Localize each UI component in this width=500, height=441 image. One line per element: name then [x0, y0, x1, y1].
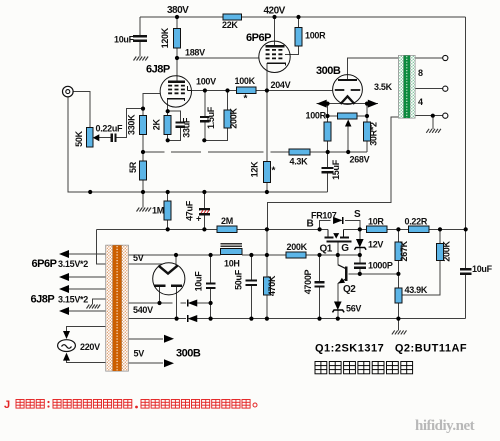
junction 188V — [175, 56, 179, 60]
junction grid node — [141, 107, 145, 111]
resistor 22K — [223, 14, 242, 20]
svg-text:200K: 200K — [442, 241, 452, 262]
wire 6J8P plate lead — [176, 58, 178, 82]
junction zener gate — [358, 253, 362, 257]
junction bus2 FR107 — [318, 227, 322, 231]
ground below 5R — [137, 208, 140, 212]
wire Q1 gate lead — [337, 242, 339, 255]
svg-text:120K: 120K — [160, 27, 170, 48]
svg-text:4700P: 4700P — [303, 269, 313, 294]
junction base — [358, 272, 362, 276]
svg-text:10R: 10R — [368, 217, 384, 227]
wire heater arrow 6J8P-a — [68, 288, 106, 290]
capacitor 33uF — [176, 121, 186, 123]
svg-text:5V: 5V — [134, 349, 145, 359]
svg-text:Q2: Q2 — [343, 284, 356, 295]
wire 10uF-mid column — [210, 255, 212, 284]
svg-text:33uF: 33uF — [181, 117, 191, 138]
svg-text:G: G — [341, 243, 349, 254]
svg-text:100K: 100K — [235, 76, 256, 86]
source AC 220V — [58, 340, 76, 352]
wire FR107 branch — [320, 220, 331, 229]
wire 50uF column — [250, 255, 252, 281]
resistor 1M — [164, 201, 171, 220]
tube V2 rectifier — [153, 263, 185, 295]
junction bus3 Q2 — [336, 317, 340, 321]
junction pot-l — [325, 114, 329, 118]
potentiometer 50K — [86, 128, 93, 148]
resistor 30R*2 hum — [364, 122, 371, 141]
capacitor 1000P — [354, 262, 366, 264]
wire heater arrow 6P6P-a — [68, 253, 106, 255]
capacitor 10uF right — [460, 268, 472, 270]
resistor 470K — [263, 277, 270, 295]
svg-text:10uF: 10uF — [472, 264, 493, 274]
junction rail 120K — [175, 15, 179, 19]
svg-text:10H: 10H — [224, 259, 240, 269]
svg-text:540V: 540V — [133, 305, 153, 315]
junction 50uF top — [249, 253, 253, 257]
transistor Q2 BUT11AF — [345, 267, 347, 281]
svg-text:+: + — [196, 214, 201, 224]
svg-text:56V: 56V — [346, 304, 361, 314]
wire 47uF column — [203, 192, 205, 209]
junction fil right — [365, 102, 369, 106]
arrow heater 6J8P-b — [59, 307, 69, 315]
junction 10uF-mid top — [209, 253, 213, 257]
junction 100V 1.5uF — [203, 88, 207, 92]
wire heater arrow 6J8P-b — [68, 310, 106, 312]
svg-text:6J8P: 6J8P — [146, 64, 170, 76]
arrow heater 6P6P-b — [59, 273, 69, 281]
junction OPT common — [431, 114, 435, 118]
diode D2 — [188, 315, 198, 322]
junction rail 6P6P — [272, 15, 276, 19]
arrow heater 6J8P-a — [59, 285, 69, 293]
transformer T2 output — [399, 56, 415, 119]
wire 100R column 6P6P screen — [298, 17, 300, 28]
wire 100V/204V row — [191, 90, 236, 92]
svg-text:50K: 50K — [74, 130, 84, 146]
junction pot-r — [365, 114, 369, 118]
wire bus3 y318.6 — [128, 318, 186, 320]
svg-text:100R: 100R — [306, 111, 327, 121]
junction bus2 1M — [166, 227, 170, 231]
svg-text:300B: 300B — [316, 65, 341, 77]
zener D5 56V — [334, 302, 342, 311]
wire 6P6P cathode drop — [266, 63, 268, 90]
capacitor 15uF — [322, 167, 334, 169]
zener D4 12V — [356, 239, 364, 248]
junction bus2 S — [358, 227, 362, 231]
svg-text:220V: 220V — [80, 342, 100, 352]
junction 100V 200K — [225, 88, 229, 92]
junction cathode 33uF — [166, 109, 170, 113]
svg-text:4.3K: 4.3K — [290, 157, 309, 167]
junction bus3 gnd — [396, 317, 400, 321]
wire right rail 10uF — [465, 229, 467, 269]
junction gnd 5R — [141, 190, 145, 194]
wire 420V rail right side down — [465, 17, 467, 229]
resistor 5R — [140, 161, 147, 180]
wire 100R-hum bottom — [327, 141, 329, 152]
svg-text:380V: 380V — [167, 5, 189, 16]
resistor 12K — [263, 162, 270, 183]
tube U2 6P6P — [259, 41, 290, 72]
resistor 100R 6P6P screen — [295, 28, 302, 47]
wire base row y273.9 — [360, 273, 399, 275]
wire filament legs — [327, 104, 329, 122]
arrow filament left — [317, 100, 327, 108]
svg-text:0.22R: 0.22R — [405, 217, 428, 227]
wire feedback row y152 — [143, 151, 165, 153]
resistor 330K — [140, 116, 147, 135]
wire 4700P column — [319, 255, 321, 282]
wire 5V top / gate row y255 — [128, 254, 220, 256]
svg-text:Q1: Q1 — [320, 244, 333, 255]
arrow 220V bottom — [63, 353, 70, 361]
wire hum pot wiper — [347, 127, 349, 153]
ground bus3 — [392, 330, 395, 334]
wire 200K-right column — [439, 229, 441, 243]
resistor 43.9K — [395, 288, 402, 303]
input jack J1 — [63, 86, 74, 97]
arrow 220V top — [63, 331, 70, 339]
wire 300B filament row — [317, 103, 378, 105]
svg-text:3.15V*2: 3.15V*2 — [58, 259, 88, 269]
ground below 10uF — [134, 57, 137, 61]
junction bus3 D1 — [209, 317, 213, 321]
svg-text:100R: 100R — [305, 31, 326, 41]
wire 5R column — [142, 152, 144, 161]
svg-text:1000P: 1000P — [368, 261, 393, 271]
junction fb wiper — [346, 150, 350, 154]
tube U1 6J8P — [160, 76, 191, 107]
wire rect filament stub — [175, 255, 177, 266]
resistor 200K right — [437, 243, 444, 260]
svg-text:hifidiy.net: hifidiy.net — [415, 418, 475, 434]
wire heater CT ground — [93, 299, 106, 305]
svg-text:FR107: FR107 — [311, 211, 337, 221]
svg-text:200K: 200K — [287, 242, 308, 252]
junction bus2 rail — [464, 227, 468, 231]
junction gnd 1M — [166, 190, 170, 194]
wire rect plate leads — [159, 286, 161, 303]
wire Q2 collector — [337, 255, 339, 265]
wire 33uF branch — [168, 111, 181, 122]
junction 470K top — [265, 253, 269, 257]
svg-text:0.22uF: 0.22uF — [96, 124, 124, 134]
tube V1 300B — [333, 75, 363, 105]
wire 6P6P plate lead — [274, 17, 276, 46]
junction fb 15uF — [326, 150, 330, 154]
junction gnd 47uF — [202, 190, 206, 194]
junction bus3 plate-r — [175, 317, 179, 321]
svg-text:10uF: 10uF — [114, 35, 135, 45]
label note danshengdao (CJK) — [315, 362, 413, 374]
wire ground bus1 y192 — [68, 191, 328, 193]
resistor 100K plate-screen — [236, 87, 256, 93]
wire 300B 5V arrow-b — [128, 362, 163, 364]
junction 4700P top — [317, 253, 321, 257]
svg-text:267K: 267K — [399, 240, 409, 261]
wire 12K column — [266, 91, 268, 162]
wire Q2 base lead — [349, 273, 360, 275]
wire 188V node to 6P6P grid — [177, 57, 259, 59]
svg-text:12K: 12K — [250, 161, 260, 177]
svg-text:420V: 420V — [264, 6, 286, 17]
wire bus3 ground stub — [397, 319, 399, 331]
resistor 0.22R — [409, 226, 429, 232]
wire B bus2 y229.4 — [96, 228, 217, 230]
diode D1 — [188, 299, 198, 306]
wire 330K column — [142, 109, 144, 116]
svg-text:6P6P: 6P6P — [32, 258, 57, 270]
wire 200K-left column — [227, 91, 229, 111]
wire input jack to pot — [73, 92, 90, 128]
mosfet Q1 2SK1317 — [327, 229, 329, 236]
svg-text:470K: 470K — [267, 275, 277, 296]
wire OPT sec common — [415, 115, 443, 117]
wire 5V bottom — [128, 263, 163, 265]
svg-text:47uF: 47uF — [185, 200, 195, 221]
junction gnd pot — [88, 190, 92, 194]
resistor 120K — [174, 29, 181, 49]
svg-text:B: B — [307, 219, 314, 230]
ground OPT common — [426, 129, 429, 133]
svg-text:204V: 204V — [271, 80, 291, 90]
wire 2K cathode column — [167, 99, 169, 116]
arrow heater 6P6P-a — [59, 250, 69, 258]
svg-text:5V: 5V — [133, 253, 144, 263]
svg-text:200K: 200K — [229, 108, 239, 129]
svg-text:300B: 300B — [176, 348, 201, 360]
svg-text:3.5K: 3.5K — [374, 82, 393, 92]
svg-text:268V: 268V — [350, 155, 370, 165]
svg-text:6J8P: 6J8P — [31, 294, 55, 306]
wire 30R*2 bottom leg — [366, 141, 368, 152]
resistor 2M — [217, 226, 237, 232]
svg-text:330K: 330K — [126, 114, 136, 135]
capacitor 1.5uF — [200, 116, 210, 118]
wire 15uF column — [327, 152, 329, 168]
wire Q2 emitter leg — [337, 283, 339, 302]
terminal 8ohm — [443, 55, 448, 60]
svg-text:1.5uF: 1.5uF — [206, 106, 216, 129]
wire 6J8P grid link — [143, 93, 160, 132]
wire bus2 to transformer — [96, 229, 106, 263]
arrow 300B 5V-b — [164, 359, 174, 367]
wire 120K column — [176, 17, 178, 29]
capacitor 4700P — [314, 281, 324, 283]
choke 10H — [221, 249, 243, 255]
svg-text:30R*2: 30R*2 — [368, 122, 378, 146]
junction bus3 4700P — [317, 317, 321, 321]
capacitor 10uF mid — [206, 283, 215, 285]
svg-text:22K: 22K — [222, 20, 238, 30]
junction gate — [336, 253, 340, 257]
junction rail 100R — [296, 15, 300, 19]
wire 300B 5V arrow-a — [128, 338, 163, 340]
svg-text:188V: 188V — [185, 48, 205, 58]
junction bus2 200K — [438, 227, 442, 231]
wire hum pot ends — [328, 115, 338, 117]
junction bus3 50uF — [249, 317, 253, 321]
resistor 2K — [164, 116, 171, 135]
resistor 4.3K — [289, 149, 310, 155]
junction bus3 470K — [265, 317, 269, 321]
svg-text:8: 8 — [418, 68, 423, 78]
capacitor 50uF — [246, 279, 257, 281]
wire heater arrow 6P6P-b — [68, 276, 106, 278]
svg-text:50uF: 50uF — [234, 269, 244, 290]
svg-text:6P6P: 6P6P — [246, 32, 271, 44]
svg-text:2K: 2K — [152, 119, 162, 131]
resistor 10R — [367, 226, 387, 232]
resistor 200K left — [224, 110, 231, 128]
svg-text:3.15V*2: 3.15V*2 — [58, 295, 88, 305]
svg-text:100V: 100V — [196, 77, 216, 87]
junction 2K bottom — [166, 138, 170, 142]
wire 1000P links — [359, 255, 361, 264]
svg-text:5R: 5R — [128, 161, 138, 173]
wire 220V bottom — [67, 357, 106, 363]
wire 267K column — [397, 229, 399, 242]
wire OPT sec 8ohm — [415, 57, 443, 59]
wire 300B plate to OPT — [348, 58, 399, 80]
svg-text:*: * — [272, 166, 276, 177]
wire top B+ rail 380V-420V y17 — [140, 16, 223, 18]
junction bus2 prim — [265, 227, 269, 231]
wire 10uF input cap column — [139, 17, 141, 36]
svg-text:Q1:2SK1317 Q2:BUT11AF: Q1:2SK1317 Q2:BUT11AF — [315, 343, 467, 355]
junction fil left — [325, 102, 329, 106]
resistor 200K gate — [286, 252, 306, 258]
svg-text:43.9K: 43.9K — [405, 285, 428, 295]
junction fil rect — [174, 253, 178, 257]
junction 1.5uF bottom — [202, 138, 206, 142]
wire zener12 link — [359, 229, 361, 239]
svg-text:10uF: 10uF — [194, 271, 204, 292]
junction gnd 12K — [265, 190, 269, 194]
junction D1 out — [209, 301, 213, 305]
terminal 4ohm — [443, 86, 448, 91]
wire 43.9K column — [397, 274, 399, 288]
wire jack ground drop — [68, 97, 90, 192]
diode D3 FR107 — [333, 217, 343, 224]
arrow 300B 5V-a — [164, 335, 174, 343]
wire 540V row1 — [128, 302, 159, 304]
svg-text:J: J — [4, 399, 10, 411]
resistor 100R hum — [324, 122, 331, 141]
wire 1M column — [167, 192, 169, 201]
wire OPT primary bottom — [267, 117, 398, 229]
svg-text:*: * — [244, 94, 248, 105]
wire 1.5uF column — [204, 91, 206, 117]
ground heater CT — [87, 305, 90, 309]
junction 204V — [265, 88, 269, 92]
junction plate-l — [157, 301, 161, 305]
wire 0.22uF to grid node — [99, 137, 112, 139]
svg-text:15uF: 15uF — [331, 159, 341, 180]
junction bus2 267K — [396, 227, 400, 231]
capacitor 47uF electrolytic — [199, 208, 210, 211]
wire 2M junction drop — [266, 229, 268, 255]
wire 220V top — [67, 326, 106, 331]
terminal common — [443, 113, 448, 118]
arrow filament right — [368, 100, 378, 108]
svg-text:S: S — [354, 209, 361, 220]
junction 267K bot — [396, 272, 400, 276]
svg-text:2M: 2M — [221, 216, 233, 226]
capacitor 10uF top-left — [133, 35, 147, 37]
svg-text:12V: 12V — [368, 240, 383, 250]
wire 470K column — [266, 255, 268, 277]
transformer T1 power — [106, 245, 129, 371]
junction fb left — [141, 150, 145, 154]
svg-text:4: 4 — [418, 97, 423, 107]
resistor 267K — [395, 242, 402, 261]
wire OPT sec 4ohm — [415, 88, 443, 90]
potentiometer hum 100R — [337, 113, 357, 119]
junction bus2 47uF — [202, 227, 206, 231]
capacitor 0.22uF — [111, 133, 113, 142]
svg-text:1M: 1M — [152, 206, 164, 216]
